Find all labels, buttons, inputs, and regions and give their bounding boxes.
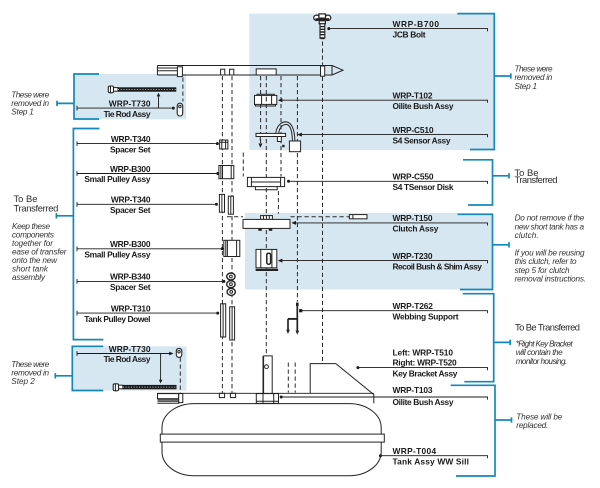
wire: dashed drop line left lug to tank deck <box>221 76 223 393</box>
blue panel: clutch assy region (middle right) <box>245 213 493 290</box>
label WRP-T150 clutch assy <box>291 213 487 233</box>
svg-text:WRP-T262: WRP-T262 <box>393 301 434 311</box>
part: clutch pin on dashed line <box>349 215 367 219</box>
part: oilite bush assy WRP-T102 <box>255 94 277 106</box>
svg-text:Tie Rod Assy: Tie Rod Assy <box>104 109 151 119</box>
svg-text:WRP-B700: WRP-B700 <box>393 19 440 29</box>
label WRP-T310 tank pulley dowel <box>77 303 219 323</box>
svg-text:Key Bracket Assy: Key Bracket Assy <box>393 368 458 378</box>
part: tank band rail <box>160 434 384 442</box>
part: rail lug 1 <box>221 69 225 75</box>
svg-text:WRP-T340: WRP-T340 <box>111 134 151 144</box>
svg-text:Tank Assy WW Sill: Tank Assy WW Sill <box>393 456 469 466</box>
wire: vertical pointer from label down to tie rod 2 <box>159 354 163 384</box>
svg-text:WRP-T230: WRP-T230 <box>393 251 433 261</box>
svg-text:Webbing Support: Webbing Support <box>393 311 459 321</box>
svg-text:monitor housing.: monitor housing. <box>516 357 568 366</box>
part: tie rod (step 2 box) <box>113 384 176 391</box>
svg-text:Step 1: Step 1 <box>515 82 538 91</box>
part: tie rod end capsule (step 2) <box>176 348 182 357</box>
svg-text:WRP-T102: WRP-T102 <box>393 91 433 101</box>
part: rail lug 2 <box>230 69 234 75</box>
svg-text:Tank Pulley Dowel: Tank Pulley Dowel <box>84 314 150 324</box>
svg-text:Transferred: Transferred <box>515 174 558 185</box>
part: rail mount plate <box>256 69 276 75</box>
wire: dashed drop line at x261 with end arrow <box>260 76 262 143</box>
svg-text:WRP-T730: WRP-T730 <box>109 98 151 108</box>
svg-text:S4 TSensor Disk: S4 TSensor Disk <box>393 182 454 192</box>
part: S4 T-sensor disk WRP-C550 <box>247 177 284 189</box>
label WRP-B340 spacer set <box>77 272 225 292</box>
part: spacer set WRP-B340 (three rings) <box>227 273 236 295</box>
svg-text:JCB Bolt: JCB Bolt <box>393 29 426 39</box>
wire: dashed horizontal clutch pin line <box>227 216 243 218</box>
blue panel: tie rod assy box (bottom left, step 2) <box>72 346 186 390</box>
wire: tank deck sill line <box>157 392 373 394</box>
annotation: these will be replaced <box>516 412 562 430</box>
bracket: these were removed in step 2 (left) <box>55 346 103 390</box>
part: oilite bush assy WRP-T103 (on deck) <box>256 394 278 404</box>
svg-text:Step 1: Step 1 <box>11 108 34 117</box>
annotation: right key bracket note <box>516 339 574 366</box>
svg-text:WRP-T103: WRP-T103 <box>393 385 433 395</box>
svg-text:clutch.: clutch. <box>515 231 539 240</box>
svg-text:Recoil Bush & Shim Assy: Recoil Bush & Shim Assy <box>393 261 483 271</box>
bracket: these were removed in step 1 (left) <box>57 74 99 119</box>
wire: short dashed segment above sensor disk <box>242 153 244 177</box>
wire: vertical pointer from label to tie rod 1 <box>157 93 161 108</box>
bolt WRP-B700 (JCB bolt) <box>314 14 331 39</box>
part: small pulley assy WRP-B300 (upper) <box>219 166 234 179</box>
annotation: do not remove clutch note <box>515 214 585 241</box>
annotation: to be transferred (right lower, one line) <box>515 321 580 332</box>
svg-text:Spacer Set: Spacer Set <box>110 282 151 292</box>
svg-text:Right: WRP-T520: Right: WRP-T520 <box>393 357 458 367</box>
part: lug foot clip 2 on deck <box>230 393 235 397</box>
wire: dashed line from lower capsule to deck cap <box>179 358 181 394</box>
bracket: these will be replaced (right) <box>451 385 512 476</box>
label WRP-B300 small pulley assy (lower) <box>77 239 224 259</box>
svg-text:Transferred: Transferred <box>14 202 59 213</box>
svg-text:Clutch Assy: Clutch Assy <box>393 224 439 234</box>
label WRP-C550 S4 T-sensor disk <box>287 172 488 192</box>
wire: dashed drop line from bar end cap to tie-rod capsule <box>182 78 184 102</box>
svg-text:WRP-C510: WRP-C510 <box>393 125 434 135</box>
svg-text:WRP-T340: WRP-T340 <box>111 195 151 205</box>
label WRP-T730 tie rod assy (step 2) <box>77 344 174 364</box>
blue panel: tie rod assy box (top left, step 1) <box>74 74 186 119</box>
svg-text:WRP-B340: WRP-B340 <box>110 272 151 282</box>
svg-text:WRP-T004: WRP-T004 <box>393 446 437 456</box>
annotation: to be transferred (left) <box>14 193 59 214</box>
svg-text:WRP-T150: WRP-T150 <box>393 213 433 223</box>
part: webbing support WRP-T262 <box>286 303 299 335</box>
wire: short dashed segment from disk base to clutch <box>277 191 279 214</box>
part: spacer set WRP-T340 (upper) <box>220 140 228 149</box>
annotation: these were removed in step 1 (left) <box>11 91 49 117</box>
svg-text:assembly: assembly <box>12 273 46 282</box>
label WRP-T262 webbing support <box>299 301 487 321</box>
bracket: to be transferred (right upper) <box>463 160 509 205</box>
part: rail center divider <box>321 66 325 76</box>
svg-text:Spacer Set: Spacer Set <box>110 144 151 154</box>
label WRP-B700 JCB bolt <box>327 19 487 39</box>
label WRP-C510 S4 sensor assy <box>297 125 487 145</box>
svg-text:replaced.: replaced. <box>516 421 548 430</box>
svg-text:Small Pulley Assy: Small Pulley Assy <box>84 250 150 260</box>
label WRP-T102 oilite bush assy <box>278 91 488 111</box>
part: deck step box (left) <box>157 394 183 404</box>
svg-text:Tie Rod Assy: Tie Rod Assy <box>104 354 151 364</box>
bracket: these were removed in step 1 (right) <box>457 14 511 150</box>
svg-text:WRP-T310: WRP-T310 <box>111 303 151 313</box>
part: rail left end cap <box>177 67 182 77</box>
part: S4 sensor assy WRP-C510 <box>256 122 301 152</box>
svg-text:WRP-C550: WRP-C550 <box>393 172 434 182</box>
label WRP-B300 small pulley assy (upper) <box>77 164 219 184</box>
part: spacer set WRP-T340 (lower slats) <box>219 194 233 214</box>
part: recoil bush and shim assy WRP-T230 <box>256 249 279 271</box>
svg-text:To Be Transferred: To Be Transferred <box>515 321 580 332</box>
svg-text:WRP-T730: WRP-T730 <box>109 344 151 354</box>
wire: dashed drop line at x266 through bush/disk/clutch/recoil to post <box>265 76 267 355</box>
annotation: if reusing clutch note <box>515 248 587 283</box>
wire: dashed drop line at x281 to sensor disk <box>280 76 282 177</box>
bracket: to be transferred (left tall) <box>56 129 103 340</box>
blue panel: removed-in-step-1 region (top right) <box>249 14 494 150</box>
svg-text:Do not remove if the: Do not remove if the <box>515 214 585 223</box>
svg-text:*Right Key Bracket: *Right Key Bracket <box>516 339 574 348</box>
svg-text:will contain the: will contain the <box>516 348 563 357</box>
svg-text:S4 Sensor Assy: S4 Sensor Assy <box>393 135 451 145</box>
label WRP-T510/T520 key bracket assy <box>356 347 487 378</box>
wire: short dashed pair near wedge to deck <box>287 363 289 393</box>
part: key bracket post <box>263 356 272 393</box>
svg-text:Oilite Bush Assy: Oilite Bush Assy <box>393 101 454 111</box>
wire: dashed drop line at x297 to webbing support <box>296 76 298 302</box>
svg-text:If you will be reusing: If you will be reusing <box>515 248 585 257</box>
svg-text:Small Pulley Assy: Small Pulley Assy <box>84 174 150 184</box>
label WRP-T730 tie rod assy (step 1) <box>77 98 175 118</box>
svg-text:WRP-B300: WRP-B300 <box>110 239 151 249</box>
annotation: keep these components note <box>12 222 67 282</box>
part: top tank rail bar <box>157 66 343 76</box>
svg-text:WRP-B300: WRP-B300 <box>110 164 151 174</box>
part: key bracket wedge (monitor arm support) <box>310 364 374 404</box>
svg-text:removal instructions.: removal instructions. <box>515 275 587 284</box>
part: clutch assy WRP-T150 <box>243 216 290 231</box>
label WRP-T103 oilite bush assy (deck) <box>280 385 488 407</box>
label WRP-T230 recoil bush and shim assy <box>278 251 488 271</box>
svg-text:new short tank has a: new short tank has a <box>515 222 585 231</box>
part: tank assy WW sill (tank body) <box>162 404 381 476</box>
svg-text:Spacer Set: Spacer Set <box>110 205 151 215</box>
part: tie rod end capsule (step 1) <box>177 103 183 116</box>
part: tie rod (step 1 box) <box>108 86 176 93</box>
annotation: these were removed in step 2 (left) <box>11 360 49 386</box>
label WRP-T340 spacer set (lower) <box>77 195 218 215</box>
svg-text:Left: WRP-T510: Left: WRP-T510 <box>393 347 454 357</box>
label WRP-T340 spacer set (upper) <box>77 134 219 154</box>
part: tank pulley dowel WRP-T310 (two slats) <box>221 304 235 340</box>
svg-text:Step 2: Step 2 <box>11 377 35 386</box>
svg-text:this clutch, refer to: this clutch, refer to <box>515 257 577 266</box>
annotation: these were removed in step 1 (right) <box>515 65 553 91</box>
svg-text:Oilite Bush Assy: Oilite Bush Assy <box>393 397 454 407</box>
label WRP-T004 tank assy WW sill <box>379 446 488 466</box>
part: small pulley assy WRP-B300 (lower) <box>224 240 240 256</box>
annotation: to be transferred (right upper) <box>515 167 558 185</box>
wire: dashed centerline from bolt through bar to key-bracket wedge <box>322 42 324 65</box>
part: lug foot clip 1 on deck <box>219 393 224 397</box>
svg-text:step 5 for clutch: step 5 for clutch <box>515 266 570 275</box>
svg-text:These will be: These will be <box>516 412 562 421</box>
bracket: clutch note (right) <box>458 214 510 289</box>
wire: dashed drop line right lug to tank deck <box>231 76 233 393</box>
bracket: to be transferred (right lower) <box>463 294 511 382</box>
